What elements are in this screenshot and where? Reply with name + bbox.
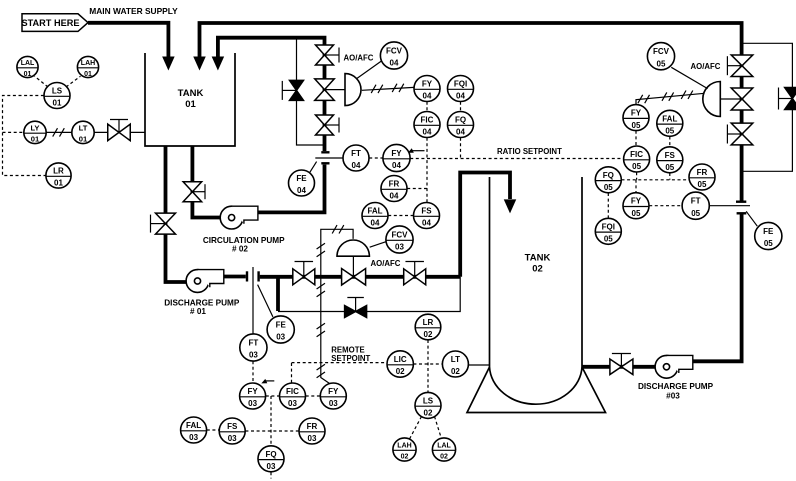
svg-text:LR: LR bbox=[423, 318, 434, 327]
svg-text:FQI: FQI bbox=[454, 80, 467, 89]
dashed signal LS-02 to LAL-02 bbox=[435, 417, 442, 439]
svg-text:FCV: FCV bbox=[386, 47, 403, 56]
svg-text:01: 01 bbox=[24, 71, 32, 78]
dashed signal LIC-02 to LT-02 bbox=[413, 363, 442, 365]
svg-text:LIC: LIC bbox=[394, 355, 407, 364]
dashed signal FR-04 to controller line bbox=[407, 188, 427, 190]
bubble FE-05 bbox=[755, 222, 782, 249]
bubble FS-05 bbox=[657, 147, 683, 173]
hand valve tank 02 discharge bbox=[610, 354, 633, 375]
svg-text:# 02: # 02 bbox=[232, 244, 248, 253]
svg-text:FS: FS bbox=[421, 207, 432, 216]
bubble FCV-03 bbox=[386, 226, 413, 253]
svg-text:05: 05 bbox=[632, 121, 641, 130]
bubble FR-05 bbox=[689, 164, 715, 190]
dashed signal FQI-04 to FQ-04 bbox=[460, 102, 462, 112]
dashed signal FAL-03 to FS-03 bbox=[207, 429, 219, 431]
svg-text:05: 05 bbox=[665, 127, 674, 136]
svg-text:01: 01 bbox=[84, 71, 92, 78]
dashed signal FQ-05 to FR-05 bbox=[622, 179, 689, 181]
svg-text:FT: FT bbox=[249, 339, 259, 348]
dashed signal FY-05 to FIC-05 bbox=[635, 131, 637, 146]
svg-text:05: 05 bbox=[691, 209, 700, 218]
dashed signal FQ-04 down to ratio line bbox=[460, 138, 462, 159]
svg-text:01: 01 bbox=[53, 99, 62, 108]
pipe: main water supply line into tank 01 bbox=[88, 23, 175, 71]
pneumatic signal FY-04 to FCV-04 actuator bbox=[362, 84, 414, 93]
bubble FQ-04 bbox=[448, 112, 474, 138]
bubble FY-03 bbox=[240, 383, 266, 409]
hand valve return riser top bbox=[727, 55, 752, 76]
svg-text:FQ: FQ bbox=[265, 450, 276, 459]
signal arrow into FY-03 bbox=[261, 379, 274, 384]
svg-text:01: 01 bbox=[54, 179, 63, 188]
bubble FT-03 bbox=[240, 334, 267, 361]
svg-text:LAL: LAL bbox=[21, 60, 35, 67]
dashed signal FAL-05 to FS-05 bbox=[669, 137, 671, 147]
svg-text:FE: FE bbox=[296, 174, 307, 183]
bubble FAL-04 bbox=[362, 203, 388, 229]
dashed signal LR-02 to LS-02 bbox=[427, 340, 429, 392]
svg-text:04: 04 bbox=[371, 219, 380, 228]
svg-text:LS: LS bbox=[52, 87, 63, 96]
svg-text:04: 04 bbox=[422, 219, 431, 228]
bubble FY-04 converter bbox=[414, 76, 440, 102]
svg-text:02: 02 bbox=[396, 367, 405, 376]
svg-text:FIC: FIC bbox=[630, 150, 643, 159]
svg-text:LY: LY bbox=[30, 123, 39, 132]
svg-text:FY: FY bbox=[631, 197, 642, 206]
svg-text:03: 03 bbox=[276, 333, 285, 342]
svg-text:FR: FR bbox=[307, 422, 318, 431]
dashed signal bracket group 01 bbox=[3, 96, 46, 176]
svg-text:FT: FT bbox=[691, 197, 701, 206]
pneumatic signal FY-03 to FCV-03 actuator bbox=[317, 225, 354, 385]
bubble FQ-03 bbox=[258, 446, 284, 472]
svg-text:05: 05 bbox=[665, 163, 674, 172]
bubble FY-05 bbox=[623, 105, 649, 131]
dashed signal below FQ-03 bbox=[270, 472, 272, 478]
pipe: group 05 bypass loop bbox=[742, 43, 793, 171]
svg-text:FCV: FCV bbox=[653, 47, 670, 56]
dashed ratio setpoint line FY-04 to FIC-05 bbox=[410, 147, 623, 158]
flow element FE-03 orifice flanges bbox=[247, 267, 273, 334]
control valve FCV-05 body bbox=[703, 82, 753, 117]
bubble FS-04 bbox=[414, 203, 440, 229]
svg-text:FIC: FIC bbox=[421, 116, 434, 125]
svg-text:03: 03 bbox=[189, 433, 198, 442]
bubble LR-02 bbox=[415, 314, 441, 340]
bubble FY-05 relay bbox=[623, 193, 649, 219]
START HERE tag bbox=[21, 14, 88, 32]
bubble FR-03 bbox=[299, 418, 325, 444]
svg-text:FAL: FAL bbox=[662, 114, 677, 123]
svg-text:05: 05 bbox=[764, 239, 773, 248]
signal line FCV-03 bubble to actuator bbox=[370, 242, 387, 248]
svg-text:FY: FY bbox=[328, 387, 339, 396]
pneumatic signal FY-05 to FCV-05 actuator bbox=[636, 91, 705, 106]
svg-text:02: 02 bbox=[424, 330, 433, 339]
bubble FT-05 bbox=[682, 192, 709, 219]
bubble FIC-03 bbox=[280, 383, 306, 409]
svg-text:02: 02 bbox=[440, 454, 448, 461]
circulation pump P-02 bbox=[220, 206, 258, 229]
tank T-01 bbox=[145, 53, 235, 146]
svg-text:FE: FE bbox=[763, 227, 774, 236]
bypass hand valve group 04 (closed, black) bbox=[282, 80, 303, 100]
dashed signal FS-05 down bbox=[669, 173, 671, 180]
hand valve below FCV-05 bbox=[727, 123, 752, 145]
svg-text:FY: FY bbox=[631, 109, 642, 118]
bubble FCV-05 bbox=[647, 43, 674, 70]
svg-text:02: 02 bbox=[401, 454, 409, 461]
bubble LT-01 bbox=[72, 121, 94, 143]
svg-text:TANK: TANK bbox=[525, 252, 551, 263]
svg-text:03: 03 bbox=[308, 434, 317, 443]
svg-text:RATIO SETPOINT: RATIO SETPOINT bbox=[497, 147, 562, 156]
svg-text:05: 05 bbox=[632, 209, 641, 218]
pipe: tank 02 outlet to discharge pump 03 bbox=[582, 365, 663, 369]
svg-text:TANK: TANK bbox=[178, 88, 204, 99]
hand valve transfer line upstream bbox=[293, 262, 315, 285]
bubble LAL-02 bbox=[432, 438, 455, 461]
svg-text:FAL: FAL bbox=[367, 207, 382, 216]
svg-text:SETPOINT: SETPOINT bbox=[331, 354, 370, 363]
svg-text:02: 02 bbox=[451, 367, 460, 376]
pipe: main transfer line to tank 02 valves bbox=[260, 275, 461, 279]
svg-text:DISCHARGE PUMP: DISCHARGE PUMP bbox=[638, 382, 714, 391]
svg-text:FS: FS bbox=[665, 151, 676, 160]
svg-text:FCV: FCV bbox=[392, 231, 409, 240]
dashed signal FY-03 to FIC-03 bbox=[266, 395, 280, 397]
bubble FY-03 relay bbox=[320, 383, 346, 409]
dashed signal FY-04 to FIC-04 bbox=[426, 102, 428, 112]
svg-text:04: 04 bbox=[456, 92, 465, 101]
svg-text:01: 01 bbox=[185, 99, 196, 110]
svg-text:04: 04 bbox=[390, 59, 399, 68]
svg-text:FY: FY bbox=[422, 80, 433, 89]
svg-text:FE: FE bbox=[276, 321, 287, 330]
dashed signal FT-04 to FY-04 bbox=[369, 157, 383, 159]
hand valve tank 01 outlet to pump 01 bbox=[151, 213, 176, 234]
bubble LIC-02 bbox=[387, 351, 413, 377]
bubble LAH-01 bbox=[77, 56, 98, 78]
pipe: group 04 bypass loop bbox=[297, 38, 324, 145]
svg-text:05: 05 bbox=[657, 59, 666, 68]
svg-text:FQI: FQI bbox=[602, 222, 615, 231]
bubble FAL-03 bbox=[181, 417, 207, 443]
hand valve below FCV-04 bbox=[316, 115, 340, 135]
bubble LS-01 bbox=[44, 83, 70, 109]
dashed remote setpoint line to LIC-02 bbox=[292, 345, 388, 363]
svg-text:03: 03 bbox=[249, 351, 258, 360]
dashed signal FT-03 to FY-03 bbox=[252, 361, 254, 383]
svg-text:04: 04 bbox=[352, 161, 361, 170]
dashed signal FIC-05 down bbox=[636, 172, 638, 180]
pipe: tank 01 outlet to discharge pump 01 bbox=[166, 146, 195, 282]
svg-text:03: 03 bbox=[228, 434, 237, 443]
dashed signal FS-03 to FR-03 bbox=[245, 430, 298, 432]
svg-text:LT: LT bbox=[451, 355, 460, 364]
bubble FT-04 bbox=[343, 145, 369, 171]
dashed signal FIC-04 down to FS-04 bbox=[426, 138, 428, 203]
signal line FCV-04 bubble to actuator bbox=[357, 61, 382, 79]
svg-text:FR: FR bbox=[389, 180, 400, 189]
svg-text:#03: #03 bbox=[666, 391, 680, 400]
hand valve on LT-01 tap bbox=[94, 120, 145, 141]
bubble FS-03 bbox=[219, 418, 245, 444]
svg-text:02: 02 bbox=[424, 409, 433, 418]
discharge pump P-01 bbox=[186, 270, 224, 293]
svg-text:LAH: LAH bbox=[81, 60, 95, 67]
pipe: transfer line tee branch down bbox=[276, 277, 280, 311]
bubble LT-02 bbox=[442, 351, 468, 377]
dashed signal LS-01 to LAH-01 bbox=[66, 76, 81, 87]
dashed signal FY-05b to FT-05 bbox=[649, 205, 682, 207]
svg-text:03: 03 bbox=[248, 399, 257, 408]
dashed signal FY-05b up bbox=[635, 180, 637, 193]
svg-text:02: 02 bbox=[532, 263, 543, 274]
bubble FE-03 bbox=[267, 316, 294, 343]
svg-text:FAL: FAL bbox=[186, 421, 201, 430]
bubble FCV-04 bbox=[380, 42, 407, 69]
svg-text:FT: FT bbox=[351, 149, 361, 158]
bubble LR-01 bbox=[46, 163, 71, 188]
signal line LT-02 to tank 02 bbox=[468, 364, 489, 366]
bubble FE-04 bbox=[289, 170, 315, 196]
bubble FQI-04 bbox=[448, 76, 474, 102]
bubble FR-04 bbox=[381, 176, 407, 202]
pipe: discharge pump 01 outlet bbox=[223, 275, 246, 279]
svg-text:START HERE: START HERE bbox=[21, 18, 79, 28]
pipe: circulation pump 02 discharge riser bbox=[258, 165, 325, 213]
svg-text:01: 01 bbox=[31, 135, 40, 144]
svg-text:LR: LR bbox=[53, 167, 64, 176]
label DISCHARGE PUMP 03 bbox=[638, 382, 714, 401]
flow element FE-05 orifice plates bbox=[709, 202, 757, 227]
svg-text:04: 04 bbox=[456, 128, 465, 137]
bubble LY-01 bbox=[24, 121, 46, 143]
svg-text:AO/AFC: AO/AFC bbox=[691, 62, 721, 71]
svg-text:AO/AFC: AO/AFC bbox=[371, 259, 401, 268]
svg-text:FY: FY bbox=[391, 149, 402, 158]
dashed signal LS-02 to LAH-02 bbox=[410, 417, 422, 440]
dashed signal LS-01 to LAL-01 bbox=[35, 76, 49, 87]
bubble FIC-04 bbox=[414, 112, 440, 138]
bubble LS-02 bbox=[415, 392, 441, 418]
svg-text:05: 05 bbox=[604, 235, 613, 244]
svg-text:AO/AFC: AO/AFC bbox=[344, 53, 374, 62]
svg-text:LS: LS bbox=[423, 396, 434, 405]
pipe: riser into tank 02 bbox=[460, 173, 516, 277]
dashed signal down to FQ-03 bbox=[270, 396, 272, 446]
svg-text:03: 03 bbox=[329, 399, 338, 408]
pipe: transfer bypass line with hand valve bbox=[278, 277, 460, 312]
bypass hand valve transfer line (closed, black) bbox=[345, 298, 367, 318]
label CIRCULATION PUMP 02 bbox=[203, 236, 285, 254]
bubble FY-04 relay bbox=[383, 144, 410, 171]
svg-text:LT: LT bbox=[79, 123, 88, 132]
svg-text:03: 03 bbox=[288, 399, 297, 408]
svg-text:04: 04 bbox=[392, 161, 401, 170]
dashed signal FQ-05 to FQI-05 bbox=[607, 193, 609, 218]
tank T-02 bbox=[467, 177, 606, 413]
hand valve tank 01 outlet to pump 02 bbox=[183, 182, 205, 202]
pipe: return loop from discharge pump 03 riser into tank 01 bbox=[193, 23, 741, 201]
svg-text:FQ: FQ bbox=[455, 116, 466, 125]
svg-text:04: 04 bbox=[297, 186, 306, 195]
svg-text:FQ: FQ bbox=[603, 171, 614, 180]
svg-text:FY: FY bbox=[247, 387, 258, 396]
svg-text:FIC: FIC bbox=[286, 387, 299, 396]
bubble FIC-05 bbox=[624, 146, 650, 172]
svg-text:01: 01 bbox=[79, 135, 88, 144]
pipe: circulation return line into tank 01 bbox=[212, 38, 325, 151]
svg-text:04: 04 bbox=[423, 92, 432, 101]
dashed signal FAL-04 to FS-04 bbox=[388, 215, 413, 217]
control valve FCV-03 body bbox=[337, 240, 369, 285]
bubble FQI-05 bbox=[595, 218, 621, 244]
svg-text:05: 05 bbox=[604, 183, 613, 192]
bubble LAL-01 bbox=[17, 56, 38, 78]
discharge pump P-03 bbox=[655, 355, 693, 378]
svg-text:MAIN WATER SUPPLY: MAIN WATER SUPPLY bbox=[89, 6, 178, 16]
svg-text:05: 05 bbox=[632, 162, 641, 171]
bubble LAH-02 bbox=[393, 438, 416, 461]
signal line LY-01 to LT-01 with hash bbox=[46, 128, 72, 136]
svg-text:LAH: LAH bbox=[397, 443, 411, 450]
svg-text:03: 03 bbox=[267, 462, 276, 471]
svg-text:LAL: LAL bbox=[437, 443, 451, 450]
hand valve transfer line downstream bbox=[404, 262, 426, 285]
flow element FE-04 orifice plates bbox=[310, 152, 343, 172]
bubble FQ-05 bbox=[595, 167, 621, 193]
svg-text:# 01: # 01 bbox=[190, 307, 206, 316]
svg-text:FS: FS bbox=[227, 422, 238, 431]
control valve FCV-04 body bbox=[315, 74, 361, 106]
svg-text:FR: FR bbox=[697, 168, 708, 177]
dashed signal FIC-03 to FY-03b bbox=[306, 395, 320, 397]
svg-text:04: 04 bbox=[423, 128, 432, 137]
hand valve on circulation riser top (AO/AFC string) bbox=[316, 45, 340, 65]
bubble FAL-05 bbox=[657, 110, 683, 136]
bypass hand valve group 05 (closed, black) bbox=[779, 88, 796, 110]
dashed remote setpoint drop to FIC-03 bbox=[291, 363, 293, 383]
svg-text:05: 05 bbox=[698, 180, 707, 189]
signal line FCV-05 bubble to actuator bbox=[671, 67, 707, 88]
pipe: tank 01 outlet to circulation pump 02 bbox=[192, 146, 228, 218]
svg-text:03: 03 bbox=[395, 243, 404, 252]
signal arrow into FY-04 bbox=[408, 148, 425, 153]
svg-text:04: 04 bbox=[390, 192, 399, 201]
label DISCHARGE PUMP 01 bbox=[164, 299, 240, 317]
pipe: discharge pump 03 outlet riser bbox=[693, 215, 742, 362]
